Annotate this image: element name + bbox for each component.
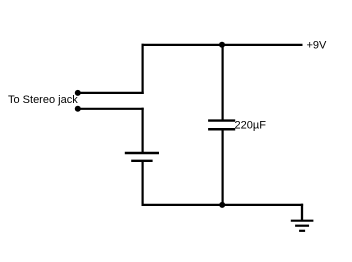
wire: left branch vertical down to battery positive xyxy=(142,108,144,153)
ground xyxy=(291,221,314,231)
junction: top rail / capacitor positive lead xyxy=(219,42,225,48)
node A: stereo jack tip terminal dot xyxy=(75,90,81,96)
wire: bottom ground rail (horizontal) xyxy=(142,204,304,206)
wire: ground drop (vertical) xyxy=(301,204,303,221)
wire: left branch vertical up to +9V rail xyxy=(142,44,144,94)
junction: bottom rail / capacitor negative lead xyxy=(219,202,225,208)
svg-text:220µF: 220µF xyxy=(235,120,267,132)
wire: stereo jack tip lead (horizontal, upper) xyxy=(78,92,144,94)
capacitor C1 xyxy=(208,121,235,130)
capacitor C1 positive lead (vertical from top rail) xyxy=(222,44,224,122)
wire: battery negative lead down to bottom rail xyxy=(142,161,144,206)
svg-text:To Stereo jack: To Stereo jack xyxy=(8,94,78,106)
node B: stereo jack sleeve terminal dot xyxy=(75,106,81,112)
svg-text:+9V: +9V xyxy=(307,40,328,52)
capacitor C1 negative lead (vertical to bottom rail) xyxy=(222,128,224,206)
wire: stereo jack sleeve lead (horizontal, lower) xyxy=(78,108,144,110)
wire: +9V top rail (horizontal) xyxy=(142,44,303,46)
battery BT1 xyxy=(125,153,159,161)
